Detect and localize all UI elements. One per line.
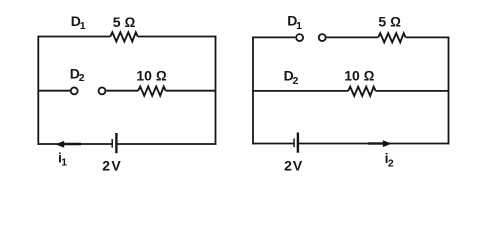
- wire: left circuit middle wire, wall to switch: [38, 90, 70, 92]
- svg-text:D1: D1: [287, 13, 302, 32]
- battery 2V (left circuit): long positive plate: [115, 133, 117, 153]
- wire: right circuit top wire, resistor to right wall: [406, 36, 450, 38]
- resistor 5 ohm (left circuit top branch): [110, 32, 137, 41]
- wire: right circuit bottom wire, battery to right wall: [298, 143, 449, 145]
- wire: left circuit left wall: [37, 36, 39, 145]
- switch D1 contact circle (left): [296, 34, 303, 41]
- svg-text:D2: D2: [70, 65, 85, 84]
- svg-text:10 Ω: 10 Ω: [136, 67, 166, 83]
- wire: right circuit top wire, wall to switch: [252, 36, 295, 38]
- resistor 10 ohm (right circuit middle branch): [348, 87, 375, 96]
- switch D1 contact circle (right): [319, 34, 326, 41]
- svg-text:i1: i1: [58, 149, 67, 168]
- wire: right circuit top wire, switch to resistor: [327, 36, 379, 38]
- wire: left circuit middle wire, resistor to right wall: [166, 90, 216, 92]
- wire: right circuit middle wire, wall to resistor: [253, 90, 348, 92]
- switch D2 contact circle (left): [71, 87, 78, 94]
- battery 2V (right circuit): long positive plate: [297, 133, 299, 153]
- wire: right circuit bottom wire, left wall to battery: [252, 143, 294, 145]
- svg-text:D2: D2: [284, 68, 299, 87]
- wire: right circuit right wall: [448, 37, 450, 145]
- svg-text:2V: 2V: [102, 157, 121, 173]
- switch D2 contact circle (right): [99, 87, 106, 94]
- resistor 10 ohm (left circuit middle branch): [138, 87, 165, 96]
- svg-text:10 Ω: 10 Ω: [344, 68, 374, 84]
- wire: left circuit bottom wire, left wall to battery: [38, 143, 113, 145]
- wire: left circuit top wire, right segment: [138, 36, 217, 38]
- svg-text:2V: 2V: [284, 157, 303, 173]
- wire: left circuit right wall: [215, 36, 217, 145]
- current arrow i2 (pointing right on bottom wire): [368, 140, 392, 147]
- current arrow i1 (pointing left on bottom wire): [55, 141, 81, 148]
- wire: left circuit top wire, left segment: [38, 36, 111, 38]
- battery 2V (right circuit): short negative plate: [293, 139, 295, 148]
- wire: right circuit left wall: [252, 37, 254, 145]
- wire: left circuit middle wire, switch to resistor: [106, 90, 138, 92]
- svg-text:5 Ω: 5 Ω: [113, 14, 136, 30]
- svg-text:i2: i2: [385, 150, 394, 169]
- wire: left circuit bottom wire, battery to right wall: [116, 143, 216, 145]
- resistor 5 ohm (right circuit top branch): [378, 33, 405, 42]
- svg-text:5 Ω: 5 Ω: [378, 14, 401, 30]
- svg-text:D1: D1: [71, 13, 86, 32]
- battery 2V (left circuit): short negative plate: [111, 139, 113, 148]
- wire: right circuit middle wire, resistor to right wall: [376, 90, 449, 92]
